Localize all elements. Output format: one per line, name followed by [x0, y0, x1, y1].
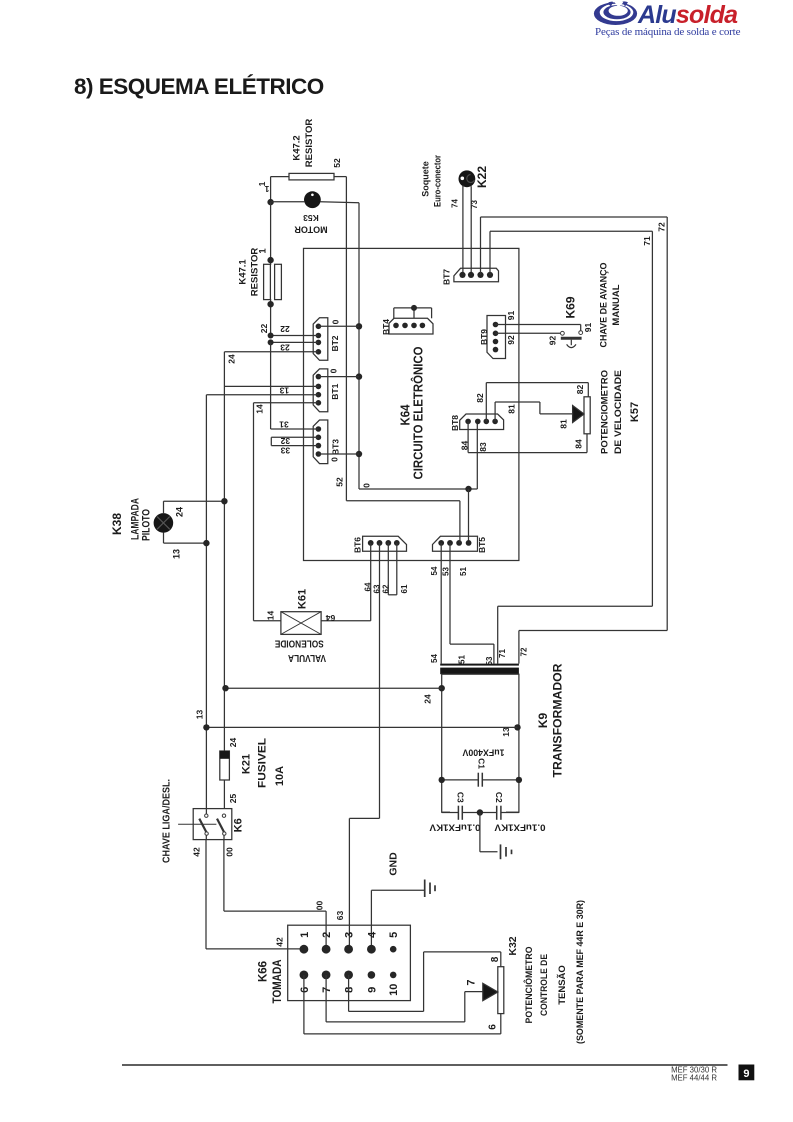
svg-text:64: 64: [326, 613, 336, 623]
svg-text:24: 24: [228, 738, 238, 748]
svg-text:23: 23: [280, 342, 290, 352]
svg-text:BT5: BT5: [477, 537, 487, 553]
svg-text:63: 63: [372, 584, 381, 593]
svg-text:7: 7: [465, 979, 477, 985]
svg-text:TENSÃO: TENSÃO: [557, 965, 568, 1005]
svg-text:BT1: BT1: [330, 383, 340, 399]
svg-text:7: 7: [321, 987, 333, 993]
svg-text:K9: K9: [536, 713, 550, 729]
svg-text:14: 14: [255, 404, 265, 414]
svg-text:TRANSFORMADOR: TRANSFORMADOR: [551, 663, 565, 777]
svg-text:53: 53: [441, 567, 450, 576]
svg-text:92: 92: [548, 336, 558, 346]
svg-text:K66: K66: [258, 961, 270, 982]
svg-text:1: 1: [299, 932, 311, 938]
svg-text:54: 54: [430, 566, 439, 575]
svg-text:82: 82: [575, 385, 585, 395]
svg-text:DE VELOCIDADE: DE VELOCIDADE: [613, 370, 624, 454]
svg-text:BT9: BT9: [479, 329, 489, 345]
svg-text:BT2: BT2: [330, 335, 340, 351]
svg-text:51: 51: [459, 567, 468, 576]
svg-text:MOTOR: MOTOR: [294, 224, 328, 234]
svg-text:6: 6: [299, 987, 311, 993]
svg-text:Euro-conector: Euro-conector: [433, 155, 443, 207]
svg-text:42: 42: [192, 847, 202, 857]
svg-text:25: 25: [228, 794, 238, 804]
svg-text:24: 24: [175, 507, 185, 517]
svg-text:81: 81: [559, 419, 569, 429]
svg-text:84: 84: [574, 439, 584, 449]
svg-text:10: 10: [388, 984, 400, 996]
svg-text:K22: K22: [475, 166, 489, 188]
svg-text:GND: GND: [387, 852, 399, 876]
svg-text:42: 42: [275, 937, 285, 947]
svg-text:9: 9: [743, 1068, 749, 1080]
svg-text:83: 83: [478, 442, 488, 452]
svg-text:POTENCIÔMETRO: POTENCIÔMETRO: [523, 947, 535, 1024]
svg-text:13: 13: [501, 727, 511, 737]
svg-text:9: 9: [366, 987, 378, 993]
svg-text:BT4: BT4: [381, 319, 391, 335]
svg-text:8: 8: [490, 956, 501, 962]
svg-text:SOLENOIDE: SOLENOIDE: [275, 637, 324, 648]
svg-text:VALVULA: VALVULA: [288, 652, 326, 663]
svg-text:FUSIVEL: FUSIVEL: [256, 738, 268, 788]
svg-text:1uFX400V: 1uFX400V: [463, 747, 505, 757]
svg-text:3: 3: [344, 932, 356, 938]
svg-text:84: 84: [460, 441, 470, 451]
svg-text:C2: C2: [494, 792, 504, 803]
svg-text:K47.2: K47.2: [291, 135, 302, 160]
svg-text:0.1uFX1KV: 0.1uFX1KV: [430, 822, 481, 832]
svg-text:6: 6: [488, 1024, 499, 1030]
svg-text:91: 91: [506, 311, 516, 321]
svg-text:MANUAL: MANUAL: [611, 284, 622, 325]
svg-text:(SOMENTE PARA MEF 44R E 30R): (SOMENTE PARA MEF 44R E 30R): [575, 900, 586, 1044]
svg-text:C3: C3: [455, 792, 465, 803]
svg-text:K38: K38: [110, 513, 124, 535]
svg-text:71: 71: [498, 649, 507, 658]
svg-text:5: 5: [388, 932, 400, 938]
svg-text:CHAVE DE AVANÇO: CHAVE DE AVANÇO: [598, 263, 609, 348]
svg-text:0: 0: [329, 368, 339, 373]
svg-text:22: 22: [259, 324, 269, 334]
svg-text:0: 0: [330, 457, 340, 462]
svg-text:22: 22: [280, 324, 290, 334]
svg-text:K21: K21: [241, 754, 253, 774]
svg-text:92: 92: [506, 335, 516, 345]
svg-text:33: 33: [280, 445, 290, 455]
svg-text:K61: K61: [296, 589, 308, 609]
svg-text:2: 2: [321, 932, 333, 938]
svg-text:14: 14: [266, 611, 276, 621]
svg-text:PILOTO: PILOTO: [140, 509, 152, 541]
svg-text:Soquete: Soquete: [421, 161, 431, 197]
svg-text:63: 63: [335, 911, 345, 921]
svg-text:RESISTOR: RESISTOR: [249, 248, 260, 297]
svg-text:0.1uFX1KV: 0.1uFX1KV: [495, 822, 546, 832]
svg-text:91: 91: [583, 323, 593, 333]
svg-text:71: 71: [642, 236, 652, 246]
svg-text:13: 13: [195, 710, 205, 720]
svg-text:24: 24: [227, 354, 237, 364]
svg-text:K64: K64: [399, 404, 413, 425]
svg-text:00: 00: [315, 901, 325, 911]
svg-text:MEF 44/44 R: MEF 44/44 R: [671, 1074, 717, 1083]
svg-text:24: 24: [423, 694, 433, 704]
svg-text:31: 31: [279, 419, 289, 429]
svg-text:CONTROLE DE: CONTROLE DE: [539, 954, 550, 1016]
svg-text:BT3: BT3: [331, 439, 341, 455]
svg-text:K47.1: K47.1: [237, 259, 248, 285]
svg-text:10A: 10A: [274, 766, 286, 786]
svg-text:54: 54: [430, 654, 439, 663]
svg-text:K57: K57: [629, 402, 641, 422]
svg-text:BT8: BT8: [450, 415, 460, 431]
svg-text:POTENCIOMETRO: POTENCIOMETRO: [599, 370, 610, 454]
svg-text:81: 81: [507, 404, 517, 414]
svg-text:CIRCUITO ELETRÔNICO: CIRCUITO ELETRÔNICO: [411, 346, 426, 479]
svg-text:K69: K69: [563, 296, 577, 318]
svg-text:BT6: BT6: [353, 537, 363, 553]
svg-text:72: 72: [519, 647, 528, 656]
svg-text:61: 61: [400, 584, 409, 593]
svg-text:TOMADA: TOMADA: [270, 959, 284, 1003]
svg-text:BT7: BT7: [442, 269, 452, 285]
svg-text:51: 51: [458, 655, 467, 664]
svg-text:13: 13: [172, 549, 182, 559]
svg-text:K53: K53: [303, 213, 319, 223]
svg-text:52: 52: [335, 477, 345, 487]
svg-text:32: 32: [280, 436, 290, 446]
svg-text:C1: C1: [477, 758, 487, 769]
svg-text:RESISTOR: RESISTOR: [304, 119, 315, 168]
svg-text:CHAVE LIGA/DESL.: CHAVE LIGA/DESL.: [160, 779, 172, 863]
svg-text:52: 52: [332, 158, 342, 168]
svg-text:8: 8: [344, 987, 356, 993]
svg-text:1: 1: [264, 184, 269, 194]
svg-text:0: 0: [331, 319, 341, 324]
svg-text:K6: K6: [233, 818, 245, 832]
svg-text:82: 82: [475, 393, 485, 403]
svg-text:1: 1: [257, 248, 268, 254]
svg-text:K32: K32: [507, 936, 519, 955]
svg-text:13: 13: [279, 386, 289, 396]
svg-text:00: 00: [225, 847, 235, 857]
svg-text:74: 74: [450, 199, 459, 208]
svg-text:72: 72: [657, 222, 667, 232]
svg-text:4: 4: [366, 931, 378, 938]
svg-text:62: 62: [381, 584, 390, 593]
svg-text:0: 0: [362, 483, 372, 488]
svg-text:64: 64: [363, 582, 372, 591]
